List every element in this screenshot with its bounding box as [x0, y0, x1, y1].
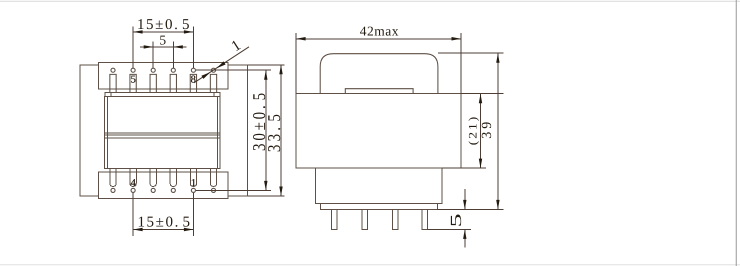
top 15 dim arrow left: [133, 30, 143, 33]
(21) dim line: [480, 94, 482, 168]
ext line top of 33.5 dim: [248, 64, 285, 66]
winding body inner edge right: [216, 96, 218, 168]
30 dim arrow top: [264, 70, 267, 80]
bobbin step rail (side view): [321, 203, 438, 209]
5 dim line upper segment: [464, 189, 466, 209]
table border bottom: [0, 264, 740, 266]
33.5 dim arrow bottom: [279, 187, 282, 197]
svg-text:1: 1: [191, 178, 196, 189]
bottom pin hole 3: [151, 188, 155, 192]
top rail end notch right: [213, 93, 215, 97]
svg-text:39: 39: [480, 119, 495, 139]
33.5 dim line: [280, 65, 282, 196]
svg-text:15±0.5: 15±0.5: [137, 17, 191, 33]
bottom 15 dim arrow left: [133, 228, 143, 231]
ext line right of top 15 dim: [192, 27, 194, 68]
5 dim line: [140, 46, 187, 48]
bottom pin hole 2: [131, 188, 135, 192]
bottom pin slot 6: [210, 169, 216, 187]
ext line right of bottom 15 dim: [192, 193, 194, 236]
table border right: [735, 0, 737, 266]
5 dim arrow upper: [463, 200, 466, 210]
ext line bottom of 33.5 dim: [248, 195, 285, 197]
30 dim arrow bottom: [264, 181, 267, 191]
top pin slot 3: [150, 74, 156, 92]
table border top: [0, 0, 740, 2]
winding tape band line 1: [105, 132, 220, 134]
svg-text:(21): (21): [466, 115, 479, 146]
bottom pin slot 5: [190, 169, 196, 187]
svg-text:5: 5: [448, 213, 465, 227]
top pin hole 1: [111, 68, 115, 72]
pin 4 (side view): [422, 209, 428, 229]
core lamination (front view): [80, 65, 248, 196]
(21) arrow top: [479, 94, 482, 104]
bobbin bottom flange: [99, 172, 229, 199]
bottom pin slot 1: [110, 169, 116, 187]
5 dim line lower segment: [464, 229, 466, 247]
top rail end notch left: [110, 93, 112, 97]
ext line top of 39 dim: [438, 52, 504, 54]
ext line left of bottom 15 dim: [132, 193, 134, 236]
leader line to pin hole: [194, 47, 249, 83]
ext line right of 5 dim: [172, 42, 174, 68]
bottom pin hole 1: [111, 188, 115, 192]
ext line left of 5 dim: [152, 42, 154, 68]
top pin slot 2: [130, 74, 136, 92]
ext line top of (21) dim: [461, 93, 504, 95]
bobbin flange (side view): [316, 168, 442, 203]
bottom 15 dim arrow right: [184, 228, 194, 231]
top pin hole 4: [171, 68, 175, 72]
42max dim line: [296, 38, 461, 40]
centre leg strip: [345, 89, 413, 94]
winding body inner edge left: [106, 96, 108, 168]
winding tape band line 2: [105, 134, 220, 136]
top pin slot 4: [170, 74, 176, 92]
bottom pin hole 5: [191, 188, 195, 192]
bottom pin slot 4: [170, 169, 176, 187]
coil (tape wrapped winding, side view): [320, 54, 438, 94]
top pin hole 5: [191, 68, 195, 72]
top pin hole 2: [131, 68, 135, 72]
top pin slot 1: [110, 74, 116, 92]
5 dim arrow left: [144, 45, 154, 48]
bobbin top rail: [105, 93, 220, 97]
ext line right of 42max: [460, 33, 462, 94]
bottom pin slot 2: [130, 169, 136, 187]
ext line bottom of 30 dim: [196, 189, 271, 191]
svg-text:4: 4: [131, 178, 137, 189]
bottom pin hole 4: [171, 188, 175, 192]
svg-text:42max: 42max: [360, 23, 399, 38]
5 dim arrow lower: [463, 229, 466, 239]
top pin hole 3: [151, 68, 155, 72]
leader arrowhead lower: [201, 72, 210, 79]
svg-text:5: 5: [131, 75, 136, 86]
winding body outline: [105, 96, 220, 168]
core lamination block (side view): [296, 94, 461, 168]
5 dim arrow right: [173, 45, 183, 48]
bottom 15 dim line: [133, 229, 193, 231]
ext line bottom of 39 dim (pin root line): [437, 208, 503, 210]
pin 1 (side view): [331, 209, 337, 229]
svg-text:15±0.5: 15±0.5: [137, 215, 191, 231]
top 15 dim arrow right: [184, 30, 194, 33]
top pin hole 6: [211, 68, 215, 72]
ext line top of 30 dim: [196, 69, 271, 71]
winding tape band line 3: [105, 137, 220, 139]
top pin slot 5: [190, 74, 196, 92]
svg-text:8: 8: [191, 75, 196, 86]
bobbin top flange: [99, 63, 229, 90]
ext line left of 42max: [295, 33, 297, 94]
leader arrowhead upper: [217, 61, 226, 68]
39 arrow top: [496, 53, 499, 63]
(21) arrow bottom: [479, 159, 482, 169]
pin 2 (side view): [362, 209, 368, 229]
bottom pin hole 6: [211, 188, 215, 192]
ext line left of top 15 dim: [132, 27, 134, 68]
42max arrow left: [296, 37, 306, 40]
39 arrow bottom: [496, 200, 499, 210]
bottom pin slot 3: [150, 169, 156, 187]
33.5 dim arrow top: [279, 65, 282, 75]
30 dim line: [265, 70, 267, 190]
42max arrow right: [452, 37, 462, 40]
ext line bottom of (21) dim: [442, 167, 486, 169]
pin 3 (side view): [392, 209, 398, 229]
top 15 dim line: [133, 31, 193, 33]
svg-text:33.5: 33.5: [266, 111, 285, 152]
39 dim line: [497, 53, 499, 209]
svg-text:5: 5: [159, 33, 166, 48]
top pin slot 6: [210, 74, 216, 92]
ext line bottom of pin 5 dim: [428, 228, 471, 230]
